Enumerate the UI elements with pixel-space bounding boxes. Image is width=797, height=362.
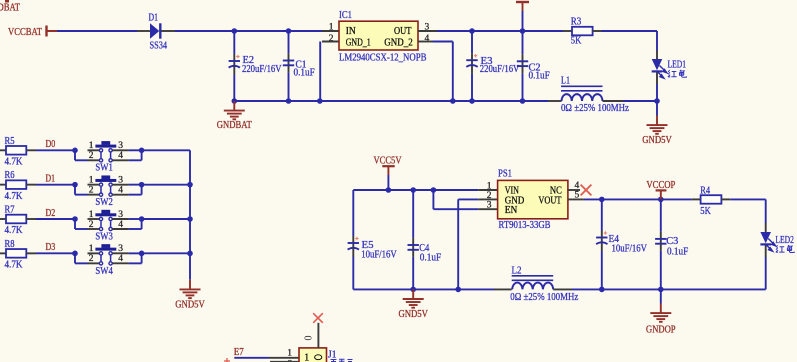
svg-text:VCCBAT: VCCBAT <box>8 27 42 38</box>
svg-text:2: 2 <box>487 191 492 201</box>
svg-text:GND5V: GND5V <box>398 309 428 320</box>
svg-text:LED1: LED1 <box>668 60 687 71</box>
svg-text:4.7K: 4.7K <box>5 157 24 168</box>
svg-text:4: 4 <box>118 220 123 230</box>
svg-text:10uF/16V: 10uF/16V <box>361 250 397 261</box>
svg-text:LED2: LED2 <box>775 235 794 246</box>
svg-text:1: 1 <box>304 353 309 362</box>
svg-text:R4: R4 <box>700 185 710 196</box>
svg-text:SW3: SW3 <box>95 231 112 242</box>
svg-text:VCC5V: VCC5V <box>374 156 403 167</box>
svg-text:3: 3 <box>118 175 123 185</box>
svg-text:E7: E7 <box>234 347 244 358</box>
svg-text:GND5V: GND5V <box>175 300 205 311</box>
svg-text:2: 2 <box>89 185 94 195</box>
svg-text:GNDBAT: GNDBAT <box>0 3 20 14</box>
svg-text:3: 3 <box>487 201 492 211</box>
svg-text:EN: EN <box>505 205 518 216</box>
svg-text:GNDOP: GNDOP <box>646 324 676 335</box>
svg-text:GNDBAT: GNDBAT <box>217 120 252 131</box>
svg-text:0Ω ±25% 100MHz: 0Ω ±25% 100MHz <box>561 103 629 114</box>
svg-text:VOUT: VOUT <box>538 195 561 206</box>
svg-text:2: 2 <box>89 151 94 161</box>
svg-text:220uF/16V: 220uF/16V <box>242 64 282 75</box>
svg-text:D1: D1 <box>149 12 159 23</box>
svg-text:4: 4 <box>118 254 123 264</box>
svg-text:PS1: PS1 <box>498 169 512 180</box>
svg-text:IN: IN <box>346 26 356 37</box>
svg-text:R5: R5 <box>5 136 15 147</box>
svg-text:5K: 5K <box>571 36 582 47</box>
svg-text:R3: R3 <box>571 16 582 27</box>
svg-text:SW1: SW1 <box>95 163 112 174</box>
svg-text:3: 3 <box>118 210 123 220</box>
svg-text:SS34: SS34 <box>150 40 168 51</box>
svg-text:3: 3 <box>118 141 123 151</box>
svg-text:D1: D1 <box>46 173 56 184</box>
svg-text:OUT: OUT <box>394 26 412 37</box>
svg-text:0.1uF: 0.1uF <box>667 246 689 257</box>
svg-text:D2: D2 <box>46 208 56 219</box>
svg-text:3: 3 <box>118 244 123 254</box>
svg-text:1: 1 <box>329 23 334 33</box>
svg-text:0.1uF: 0.1uF <box>529 71 551 82</box>
svg-text:4.7K: 4.7K <box>5 191 24 202</box>
svg-text:0: 0 <box>304 336 315 341</box>
svg-text:0.1uF: 0.1uF <box>294 67 316 78</box>
svg-text:10uF/16V: 10uF/16V <box>612 243 648 254</box>
svg-text:R7: R7 <box>5 205 15 216</box>
svg-text:J1: J1 <box>328 349 337 360</box>
svg-text:1: 1 <box>487 181 492 191</box>
svg-text:SW2: SW2 <box>95 197 112 208</box>
svg-text:RT9013-33GB: RT9013-33GB <box>499 220 551 231</box>
svg-text:GND5V: GND5V <box>642 135 672 146</box>
svg-text:GND_1: GND_1 <box>346 38 371 49</box>
svg-text:D0: D0 <box>46 139 56 150</box>
svg-text:R6: R6 <box>5 170 15 181</box>
svg-text:1: 1 <box>89 210 94 220</box>
svg-text:LM2940CSX-12_NOPB: LM2940CSX-12_NOPB <box>339 52 427 63</box>
svg-text:R8: R8 <box>5 239 15 250</box>
svg-text:4: 4 <box>118 151 123 161</box>
svg-text:1: 1 <box>89 244 94 254</box>
svg-text:0.1uF: 0.1uF <box>420 252 442 263</box>
svg-text:IC1: IC1 <box>339 10 352 21</box>
svg-text:L1: L1 <box>561 75 570 86</box>
svg-text:4.7K: 4.7K <box>5 260 24 271</box>
svg-text:4.7K: 4.7K <box>5 225 24 236</box>
svg-text:1: 1 <box>89 141 94 151</box>
svg-text:1: 1 <box>287 348 292 358</box>
svg-text:2: 2 <box>89 220 94 230</box>
svg-text:2: 2 <box>329 34 334 44</box>
svg-text:GND_2: GND_2 <box>384 38 413 49</box>
svg-text:2: 2 <box>89 254 94 264</box>
svg-text:220uF/16V: 220uF/16V <box>480 64 520 75</box>
svg-text:L2: L2 <box>512 265 522 276</box>
svg-text:D3: D3 <box>46 242 56 253</box>
svg-text:1: 1 <box>89 175 94 185</box>
svg-text:0Ω ±25% 100MHz: 0Ω ±25% 100MHz <box>510 292 578 303</box>
svg-text:5K: 5K <box>700 206 711 217</box>
svg-text:SW4: SW4 <box>95 266 112 277</box>
svg-text:4: 4 <box>118 185 123 195</box>
